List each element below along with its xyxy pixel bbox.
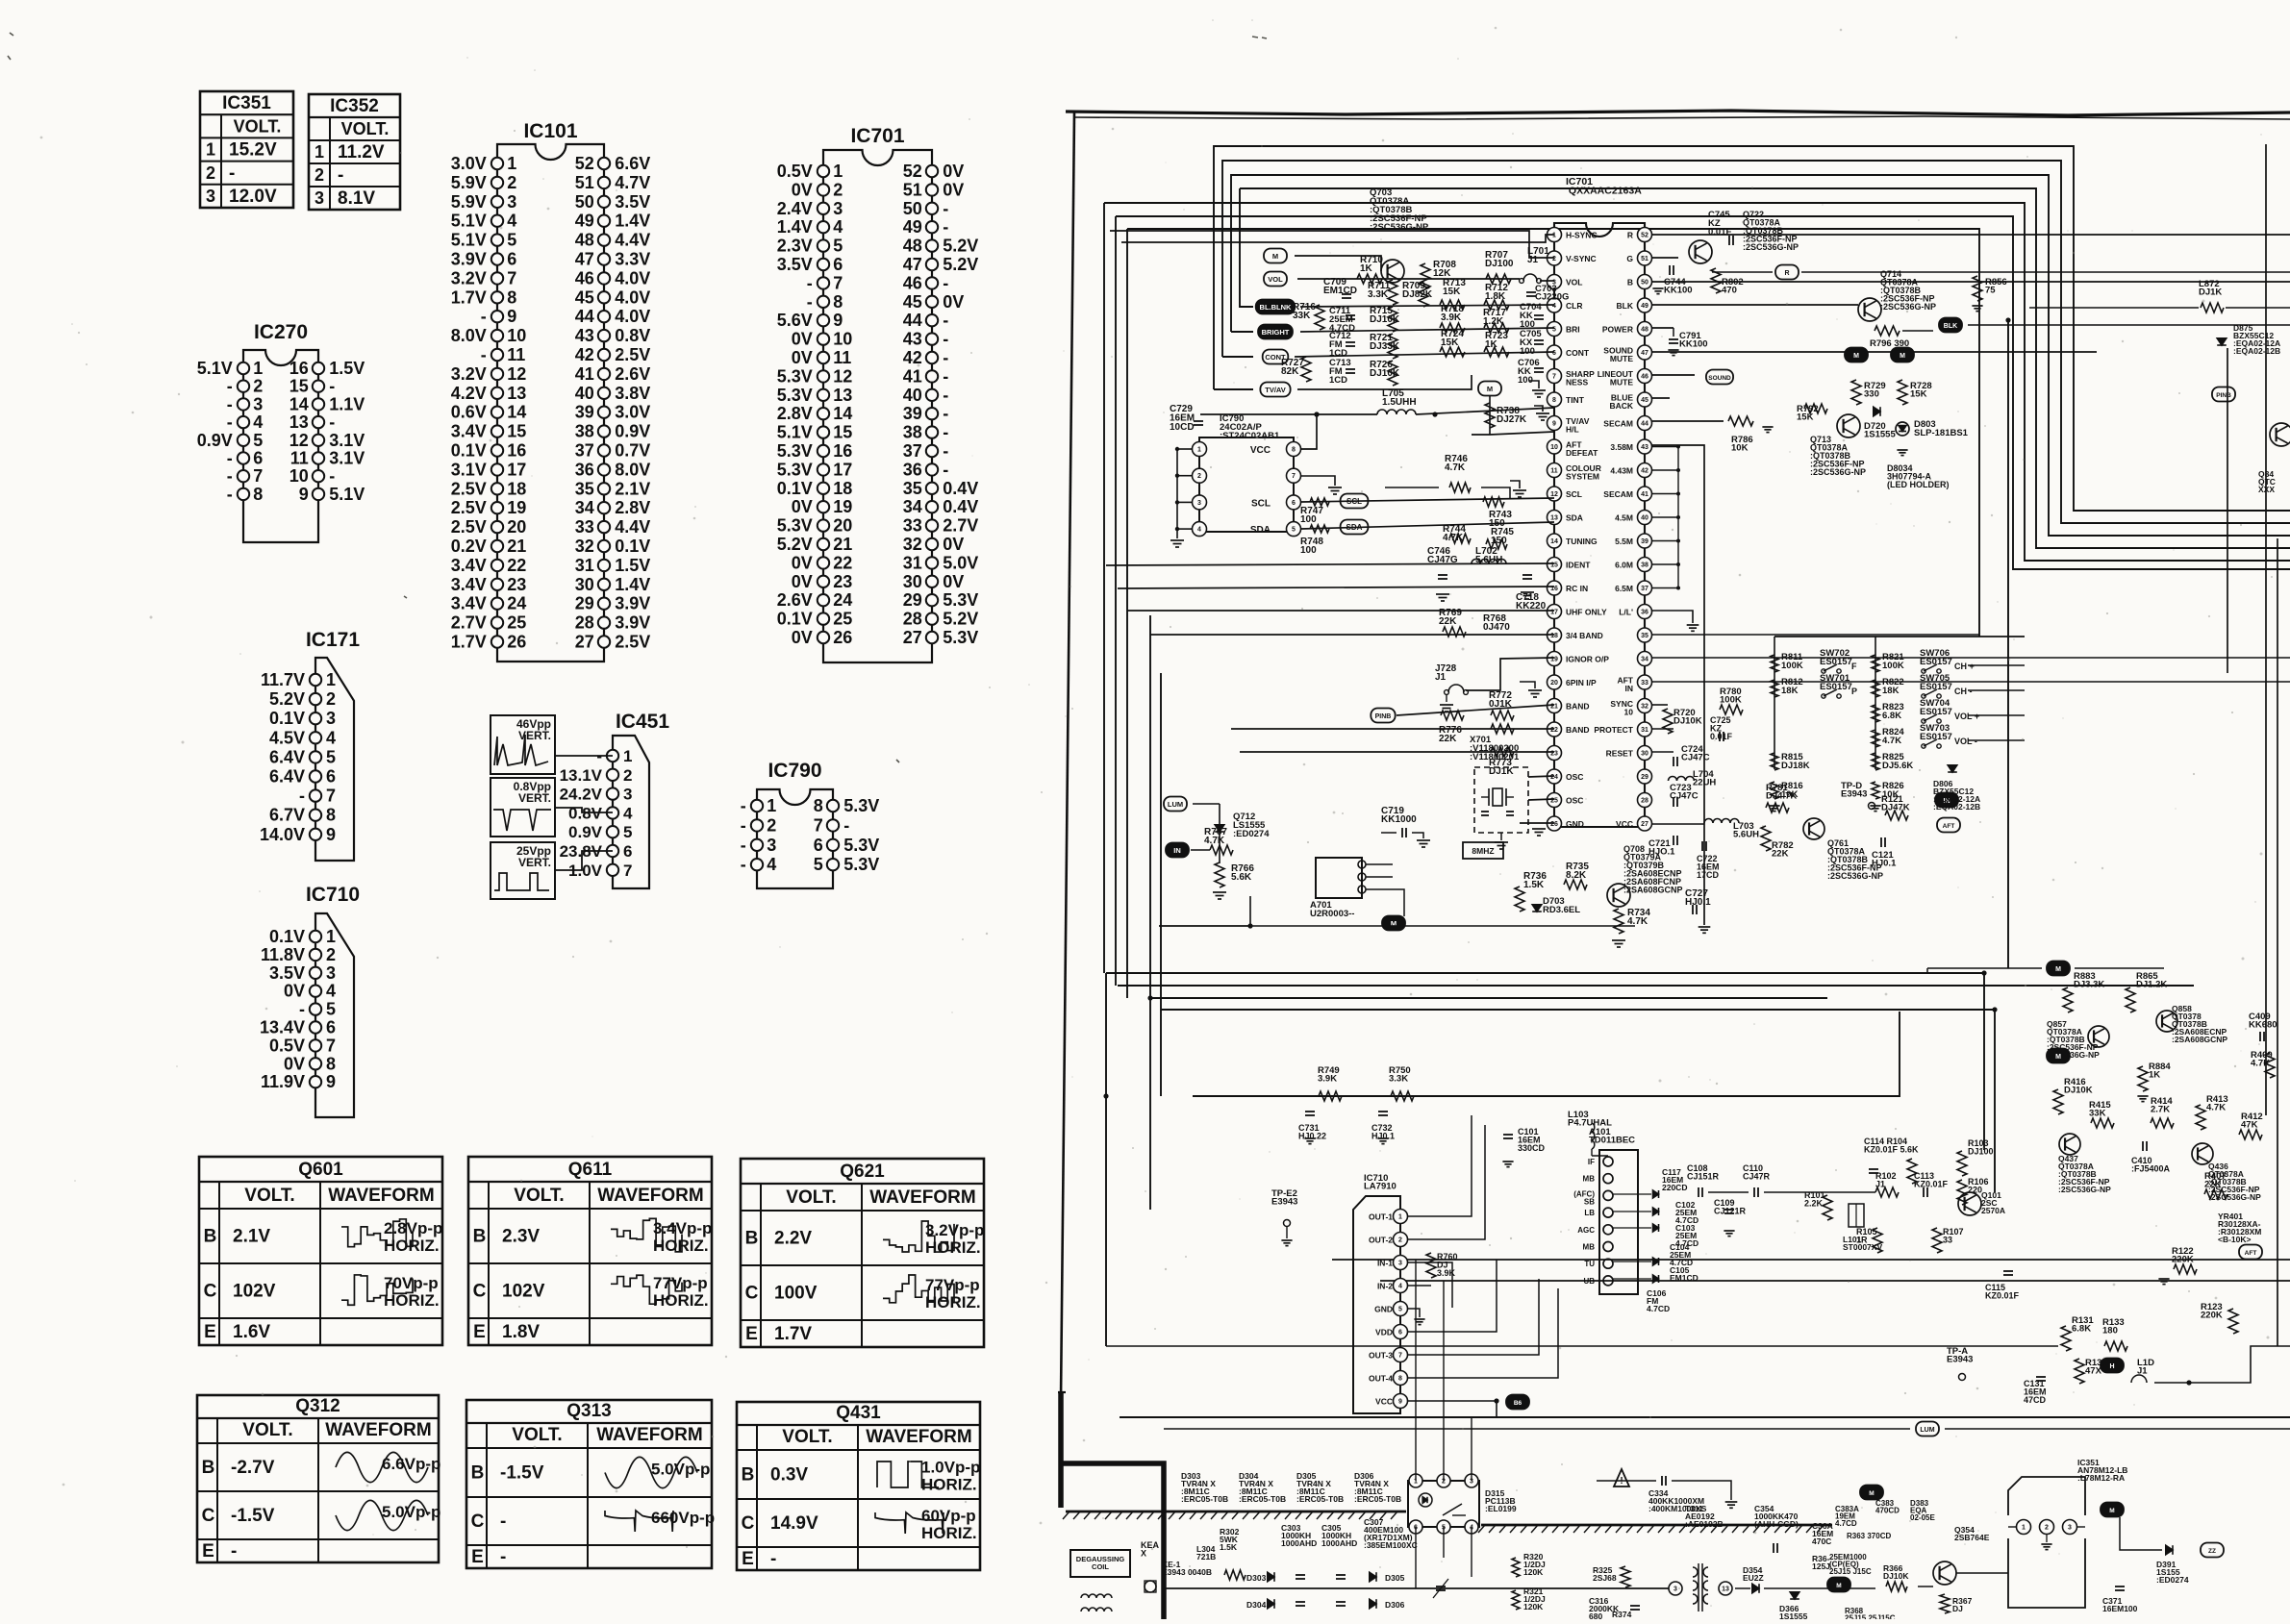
svg-text:1.5V: 1.5V [329, 359, 365, 378]
wire opto verticals [1415, 1527, 1417, 1588]
resistor R103 DJ100 [1957, 1151, 1967, 1176]
svg-text:10: 10 [507, 326, 526, 345]
top bus line 4 [1240, 188, 2290, 548]
svg-text:5.3V: 5.3V [843, 796, 879, 815]
svg-text:0V: 0V [943, 572, 964, 591]
IC701 pin 35 nc [1638, 628, 1652, 642]
svg-text:3: 3 [767, 836, 776, 855]
svg-text:11: 11 [507, 345, 525, 364]
svg-text:LUM: LUM [1168, 800, 1183, 809]
svg-text:6: 6 [1552, 350, 1556, 357]
svg-text:BRIGHT: BRIGHT [1262, 328, 1290, 337]
svg-text:R7493.9K: R7493.9K [1318, 1065, 1340, 1085]
signal tag SCL [1341, 494, 1369, 509]
wire lineout pin46 [1652, 397, 1670, 399]
svg-text:5.3V: 5.3V [777, 441, 813, 461]
transistor Q101 2SC2570A [1958, 1192, 1981, 1215]
svg-text:VOL +: VOL + [1954, 712, 1979, 721]
svg-text:52: 52 [575, 154, 594, 173]
svg-text:5.6V: 5.6V [777, 311, 813, 330]
svg-text:3.9V: 3.9V [615, 594, 650, 613]
transistor Q703 [1381, 260, 1404, 283]
capacitor C113 KZ0.01F [1923, 1187, 1925, 1197]
wire power rail [1164, 1587, 1670, 1589]
svg-text:26: 26 [833, 628, 852, 647]
IC790 pin 2 [1177, 475, 1192, 477]
svg-text:34: 34 [575, 498, 594, 517]
svg-text:11: 11 [833, 348, 851, 367]
wire L705 row [1200, 413, 1377, 415]
waveform table Q431 [737, 1402, 980, 1570]
resistor R729 330 [1851, 380, 1861, 405]
svg-text:H: H [2109, 1363, 2114, 1370]
svg-text:-: - [227, 485, 233, 504]
svg-text:B: B [745, 1229, 759, 1249]
resistor R413 4.7K [2196, 1105, 2205, 1130]
IC701 pin 52 R [1638, 228, 1652, 242]
resistor R769 22K [1443, 627, 1466, 637]
wire reg output [2120, 1517, 2162, 1550]
svg-text:2.8V: 2.8V [615, 498, 650, 517]
svg-text:VOLT.: VOLT. [512, 1425, 562, 1445]
IC701 pin 43 3.58M [1638, 439, 1652, 454]
resistor R773 DJ1K [1491, 747, 1514, 757]
svg-text:VOLT.: VOLT. [234, 116, 282, 136]
svg-text:28: 28 [575, 613, 594, 633]
svg-text:2.5V: 2.5V [451, 479, 487, 498]
svg-text:6.0M: 6.0M [1615, 561, 1633, 570]
svg-text:R7361.5K: R7361.5K [1523, 871, 1547, 890]
resistor R415 33K [2091, 1118, 2114, 1128]
wire SDA row [1301, 522, 1554, 529]
wire IC790 VCC to L705 row [1301, 414, 1317, 449]
tuner diode column [1653, 1190, 1659, 1198]
svg-text:M: M [2109, 1508, 2114, 1514]
IC701 pin 2 V-SYNC [1548, 251, 1562, 265]
svg-text:VCC: VCC [1375, 1397, 1393, 1407]
svg-text:6: 6 [253, 449, 263, 468]
svg-text:38: 38 [575, 422, 594, 441]
svg-text:16: 16 [289, 359, 309, 378]
svg-text:33: 33 [575, 517, 594, 537]
svg-text:45: 45 [1641, 397, 1648, 404]
svg-text:-: - [299, 787, 305, 806]
capacitor C721 HJ0.1 [1673, 836, 1674, 845]
IC701 pin 51 G [1638, 251, 1652, 265]
svg-text:6PIN I/P: 6PIN I/P [1566, 678, 1597, 687]
svg-text:3.9V: 3.9V [615, 613, 650, 633]
svg-text:R8236.8K: R8236.8K [1882, 702, 1904, 721]
wire pin34 [1652, 657, 2290, 659]
resistor R712 1.8K [1484, 300, 1509, 310]
svg-text:1: 1 [507, 154, 516, 173]
svg-text:1: 1 [326, 670, 336, 689]
wire CONT row [1295, 352, 1554, 357]
svg-text:1: 1 [2022, 1525, 2026, 1532]
IC790 pin 3 [1177, 501, 1192, 503]
diode D391 1S155 [2166, 1545, 2173, 1555]
ground pin8 tint [1534, 406, 1543, 412]
resistor R367 DJ [1940, 1594, 1950, 1613]
IC701 pin 11 COLOUR SYSTEM [1548, 463, 1562, 478]
wire power pin48 [1652, 351, 2097, 353]
svg-text:-1.5V: -1.5V [500, 1463, 544, 1484]
resistor R736 1.5K [1515, 887, 1524, 912]
svg-text:22: 22 [507, 556, 526, 575]
wire M tag row [1295, 256, 1381, 271]
svg-text:0.4V: 0.4V [943, 497, 978, 516]
vertical to tuner 1 [1983, 973, 1985, 1150]
bridge rectifier D305 [1370, 1572, 1376, 1582]
svg-text:77Vp-pHORIZ.: 77Vp-pHORIZ. [925, 1276, 981, 1312]
svg-text:4.0V: 4.0V [615, 287, 650, 307]
svg-text:4: 4 [1197, 527, 1201, 534]
svg-text:49: 49 [575, 212, 594, 231]
svg-text:R3211/2DJ120K: R3211/2DJ120K [1523, 1587, 1546, 1612]
svg-text:8: 8 [1552, 397, 1556, 404]
svg-text:3: 3 [206, 187, 215, 206]
svg-text:4: 4 [1552, 303, 1556, 310]
svg-text:77Vp-pHORIZ.: 77Vp-pHORIZ. [653, 1274, 709, 1310]
label 8MHZ box [1463, 842, 1503, 859]
svg-text:-: - [329, 466, 335, 486]
svg-text:VOLT.: VOLT. [242, 1420, 292, 1440]
capacitor C705 KK100 [1534, 339, 1544, 341]
resistor R728 15K [1898, 380, 1907, 405]
IC701 pin 26 GND [1548, 816, 1562, 831]
svg-text:VERT.: VERT. [518, 856, 551, 869]
resistor R716 33K [1315, 305, 1324, 330]
signal tag M power [1860, 1486, 1883, 1500]
svg-text:1.4V: 1.4V [615, 575, 650, 594]
IC701 pin 44 SECAM [1638, 416, 1652, 431]
IC701 pin 36 L/L' [1638, 605, 1652, 619]
svg-text:4: 4 [326, 982, 336, 1001]
svg-text:4: 4 [1398, 1284, 1402, 1290]
svg-text:28: 28 [903, 610, 922, 629]
svg-text:-: - [770, 1549, 776, 1569]
resistor R720 DJ10K [1663, 709, 1673, 734]
svg-text:1: 1 [767, 796, 776, 815]
tuner pin UB [1603, 1276, 1613, 1286]
svg-text:C: C [745, 1284, 759, 1304]
svg-text:3: 3 [833, 199, 843, 218]
voltage table IC351 [200, 91, 293, 208]
svg-text:1: 1 [623, 747, 632, 765]
svg-text:B: B [742, 1465, 755, 1486]
svg-text:R: R [1784, 270, 1789, 277]
svg-text:34: 34 [1641, 657, 1648, 663]
svg-text:9: 9 [1552, 421, 1556, 428]
svg-text:-: - [943, 217, 948, 237]
wire t311 secondary [1735, 1587, 1750, 1589]
svg-text:35: 35 [1641, 633, 1648, 639]
svg-text:2.1V: 2.1V [615, 479, 650, 498]
left vertical bus 5 [1149, 615, 1151, 1210]
top bus line 5 [1104, 203, 2290, 561]
bridge rectifier D303 [1268, 1572, 1274, 1582]
svg-text:5: 5 [507, 231, 516, 250]
svg-text:Q431: Q431 [836, 1403, 881, 1423]
svg-text:R7113.3K: R7113.3K [1368, 281, 1391, 300]
transistor Q858 [2156, 1011, 2177, 1032]
svg-text:VDD: VDD [1375, 1328, 1393, 1337]
svg-text:2: 2 [206, 163, 215, 183]
svg-text:R4134.7K: R4134.7K [2206, 1094, 2228, 1113]
svg-text:102V: 102V [233, 1282, 276, 1302]
svg-text:3.5V: 3.5V [777, 255, 813, 274]
svg-text:0V: 0V [284, 982, 305, 1001]
svg-text:C36A16EM470C: C36A16EM470C [1812, 1521, 1833, 1546]
svg-text:2.4V: 2.4V [777, 199, 813, 218]
signal tag BRIGHT [1258, 325, 1293, 339]
svg-text:48: 48 [1641, 327, 1648, 334]
svg-text:GND: GND [1374, 1305, 1393, 1314]
svg-text:7: 7 [326, 787, 336, 806]
svg-text:3.9V: 3.9V [451, 250, 487, 269]
svg-text:8: 8 [833, 292, 843, 312]
svg-text:1.8V: 1.8V [502, 1322, 540, 1342]
ground ignor [1520, 682, 1535, 688]
IC790 pin 7 nc [1287, 468, 1301, 483]
IC701 pin 39 5.5M [1638, 534, 1652, 548]
svg-text:-: - [807, 273, 813, 292]
svg-text:4: 4 [507, 212, 516, 231]
svg-text:5.3V: 5.3V [943, 628, 978, 647]
svg-text:3.4V: 3.4V [451, 575, 487, 594]
svg-text:OUT-1: OUT-1 [1369, 1212, 1393, 1222]
svg-text:4.5V: 4.5V [269, 728, 305, 747]
svg-text:50: 50 [903, 199, 922, 218]
svg-text:CH +: CH + [1954, 662, 1975, 671]
svg-text:3: 3 [326, 963, 336, 983]
switch matrix top rail [1774, 636, 2025, 637]
resistor R776 22K [1441, 711, 1464, 720]
svg-text:32: 32 [575, 537, 594, 556]
svg-text:C: C [471, 1512, 485, 1532]
svg-text:5: 5 [326, 747, 336, 766]
svg-text:IC701: IC701 [850, 125, 904, 147]
svg-text:R7720J1K: R7720J1K [1489, 690, 1513, 710]
page frame top border [1066, 111, 2290, 115]
svg-text:1.4V: 1.4V [615, 212, 650, 231]
resistor R122 220K [2174, 1264, 2197, 1274]
svg-text:IC351: IC351 [222, 93, 271, 113]
resistor on SDA line [1310, 525, 1329, 533]
svg-text:14: 14 [833, 404, 852, 423]
IC701 pin 4 CLR [1548, 298, 1562, 312]
svg-text:0.7V: 0.7V [615, 441, 650, 461]
svg-text:1: 1 [1197, 447, 1201, 454]
optocoupler D315 box [1408, 1481, 1479, 1527]
svg-text:8: 8 [326, 806, 336, 825]
resistor R713 15K [1440, 300, 1465, 310]
svg-text:4.43M: 4.43M [1610, 466, 1633, 476]
svg-text:45: 45 [903, 292, 922, 312]
svg-text:B: B [473, 1227, 487, 1247]
IC701 pin 49 BLK [1638, 298, 1652, 312]
svg-text:46: 46 [903, 273, 922, 292]
IC701 pin 5 BRI [1548, 322, 1562, 337]
paper specks [1457, 58, 1459, 60]
svg-text:C: C [742, 1513, 755, 1534]
svg-text:WAVEFORM: WAVEFORM [596, 1425, 702, 1445]
svg-text:TU: TU [1584, 1260, 1595, 1268]
wire in row [1191, 849, 1210, 851]
IC790 pin 5 SDA [1287, 522, 1301, 537]
varistor symbol [1436, 1586, 1446, 1587]
resistor R717 1.2K [1484, 323, 1509, 333]
svg-text:3.5V: 3.5V [269, 963, 305, 983]
svg-text:39: 39 [575, 403, 594, 422]
wire blk row [1652, 327, 1673, 329]
svg-text:4: 4 [833, 217, 843, 237]
svg-text:5.2V: 5.2V [269, 689, 305, 709]
svg-text:13.1V: 13.1V [560, 766, 603, 785]
transistor Q437 [2059, 1134, 2080, 1155]
svg-text:B: B [471, 1463, 485, 1484]
svg-text:13: 13 [1722, 1587, 1729, 1593]
svg-text:45: 45 [575, 287, 594, 307]
svg-text:5: 5 [1398, 1307, 1402, 1313]
IC701 pin 21 BAND [1548, 699, 1562, 713]
svg-text:5.9V: 5.9V [451, 192, 487, 212]
svg-text:R7503.3K: R7503.3K [1389, 1065, 1411, 1085]
svg-text:ZZ: ZZ [2208, 1548, 2216, 1555]
svg-text:LB: LB [1584, 1209, 1595, 1217]
svg-text:52: 52 [1641, 233, 1648, 239]
svg-text:SCL: SCL [1346, 497, 1362, 506]
IC701 pin 42 4.43M [1638, 463, 1652, 478]
capacitor C744 KK100 [1669, 265, 1671, 275]
svg-text:20: 20 [833, 516, 852, 536]
svg-text:26: 26 [507, 633, 526, 652]
capacitor C713 FM 1CD [1346, 368, 1355, 370]
signal tag BRI2 [1891, 348, 1914, 362]
svg-text:Q312: Q312 [295, 1396, 340, 1416]
resistor R726 DJ10K [1388, 361, 1397, 386]
svg-text:5.2V: 5.2V [943, 237, 978, 256]
svg-text:VCC: VCC [1616, 819, 1633, 829]
wire BL.BLNK row [1300, 305, 1554, 307]
svg-text:8: 8 [1292, 447, 1296, 454]
svg-text:0V: 0V [792, 180, 813, 199]
wire c334 row [1597, 1480, 1656, 1482]
svg-text:0.9V: 0.9V [615, 422, 650, 441]
svg-text:11: 11 [290, 449, 309, 468]
chassis hatched bus right [1481, 1524, 1832, 1527]
svg-text:0.6V: 0.6V [451, 403, 487, 422]
svg-text:22: 22 [833, 553, 852, 572]
svg-text:-: - [227, 412, 233, 432]
LED D803 SLP-181BS1 [1896, 422, 1909, 436]
svg-text:Q621: Q621 [840, 1162, 885, 1182]
wire GND pin26 [1520, 822, 1554, 824]
wire pin49 to Q714 [1652, 304, 1858, 306]
svg-text:8.1V: 8.1V [338, 188, 375, 209]
svg-text:24: 24 [1550, 774, 1558, 781]
lower nested wires into power section [1120, 1416, 2290, 1418]
svg-text:3.4V: 3.4V [451, 422, 487, 441]
svg-text:R1012.2K: R1012.2K [1804, 1190, 1825, 1209]
svg-text:VOLT.: VOLT. [244, 1186, 294, 1206]
svg-text:WAVEFORM: WAVEFORM [866, 1427, 971, 1447]
svg-text:4.7V: 4.7V [615, 173, 650, 192]
svg-text:3.2V: 3.2V [451, 364, 487, 384]
svg-text:42: 42 [575, 345, 594, 364]
svg-text:3: 3 [1673, 1587, 1677, 1593]
transistor Q722 [1689, 240, 1712, 263]
svg-text:14: 14 [507, 403, 526, 422]
capacitor C108 CJ151R [1698, 1187, 1699, 1197]
svg-text:-: - [943, 273, 948, 292]
IC701 pin 34 nc [1638, 652, 1652, 666]
signal tag AFT mid [2239, 1245, 2262, 1260]
svg-text:18: 18 [1550, 633, 1558, 639]
crystal X701 dashed box [1474, 767, 1528, 833]
svg-text:1.7V: 1.7V [451, 633, 487, 652]
svg-text:29: 29 [903, 590, 922, 610]
svg-text:14: 14 [1550, 538, 1558, 545]
resistor R102 J1 [1875, 1187, 1899, 1197]
svg-text:43: 43 [903, 330, 922, 349]
transistor far right edge [2270, 423, 2290, 446]
svg-text:0.1V: 0.1V [269, 709, 305, 728]
svg-text:40: 40 [575, 384, 594, 403]
IC701 pin 1 H-SYNC [1548, 228, 1562, 242]
svg-text:M: M [1853, 353, 1859, 360]
svg-text:IGNOR O/P: IGNOR O/P [1566, 655, 1609, 664]
wire secam pin44 down [1652, 445, 1704, 925]
svg-text:H-SYNC: H-SYNC [1566, 231, 1598, 240]
signal tag BL.BLNK [1256, 300, 1296, 314]
resistor R792 15K [1804, 404, 1827, 413]
wire sync pin32 [1652, 704, 1668, 706]
capacitor C101 16EM 330CD [1503, 1134, 1513, 1136]
svg-text:1: 1 [206, 140, 215, 160]
IC701 pin 19 IGNOR O/P [1548, 652, 1562, 666]
svg-text:26: 26 [1550, 821, 1558, 828]
inductor L704 22UH [1669, 777, 1695, 782]
svg-text:6.7V: 6.7V [269, 806, 305, 825]
svg-text:MB: MB [1583, 1175, 1596, 1184]
signal tag M mid [1478, 382, 1501, 396]
diode D720 1S1555 [1874, 407, 1880, 416]
IC701 pin 7 SHARP NESS [1548, 369, 1562, 384]
svg-text:CONT: CONT [1566, 348, 1590, 358]
svg-text:1.1V: 1.1V [329, 394, 365, 413]
signal tag VOL [1264, 272, 1287, 287]
transistor Q708 [1607, 884, 1630, 907]
svg-text:25: 25 [507, 613, 526, 633]
svg-text:60Vp-pHORIZ.: 60Vp-pHORIZ. [921, 1507, 977, 1542]
svg-text:E: E [204, 1322, 216, 1342]
resistor R123 220K [2228, 1309, 2238, 1334]
inductor L703 5.6UH [1704, 819, 1739, 824]
wire IC790 pin7 ground [1301, 476, 1335, 486]
svg-text:42: 42 [1641, 468, 1648, 475]
IC IC710 body [1353, 1196, 1400, 1413]
IC701 pin 47 SOUND MUTE [1638, 345, 1652, 360]
resistor R709 DJ82K [1419, 282, 1428, 307]
svg-text:5.0Vp-p: 5.0Vp-p [651, 1460, 710, 1478]
svg-text:5.9V: 5.9V [451, 173, 487, 192]
svg-text:R7358.2K: R7358.2K [1566, 862, 1589, 881]
svg-text:3.1V: 3.1V [329, 449, 365, 468]
svg-text:5.1V: 5.1V [197, 359, 233, 378]
svg-text:0V: 0V [943, 535, 964, 554]
wire pin35 [1652, 634, 1979, 636]
